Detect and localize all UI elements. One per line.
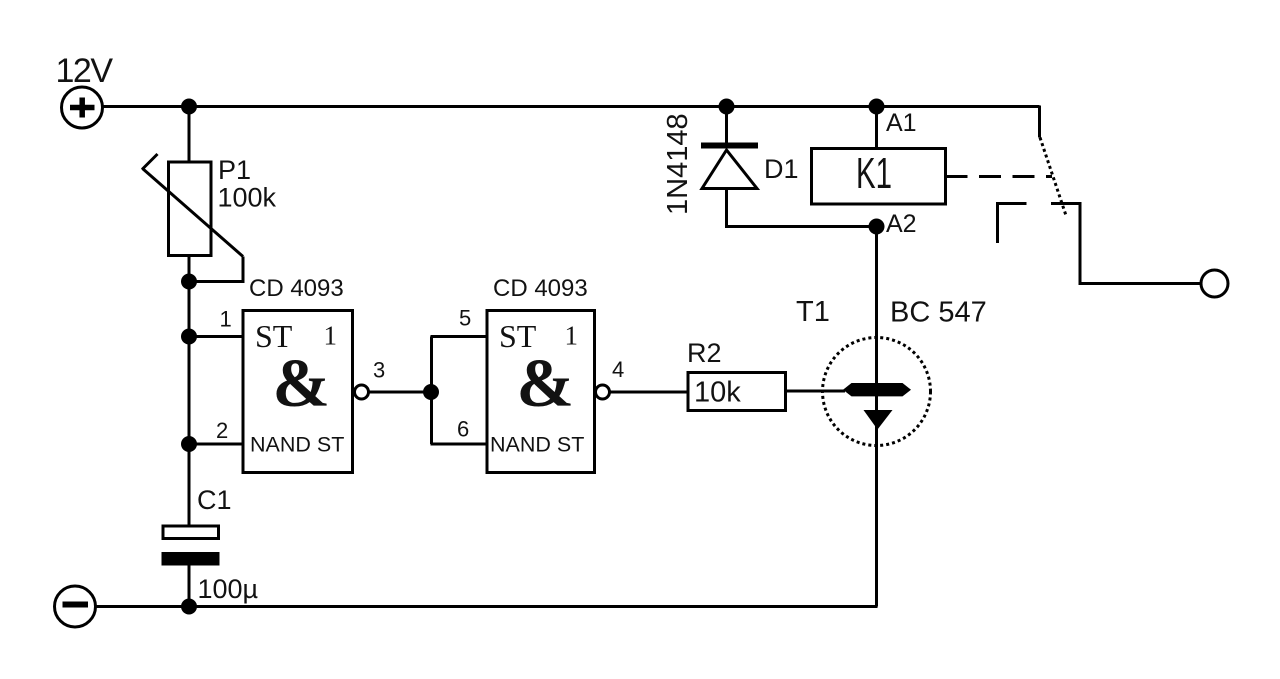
wire gate2 pin6 stub	[431, 443, 488, 446]
node P1 bottom junction	[181, 274, 197, 290]
switch fixed contact hook	[998, 204, 1027, 244]
svg-text:&: &	[273, 345, 330, 421]
node junction top-left	[181, 99, 197, 115]
wire collector-emitter vertical through T1	[875, 227, 878, 607]
svg-text:4: 4	[612, 357, 624, 382]
gate2 output inversion bubble	[596, 385, 610, 399]
wire gate1 pin2 stub	[189, 443, 243, 446]
svg-text:P1: P1	[218, 155, 251, 185]
terminal 12V plus	[62, 87, 103, 128]
node gate1 pin1 junction	[181, 329, 197, 345]
svg-text:&: &	[517, 345, 574, 421]
svg-text:1N4148: 1N4148	[662, 113, 694, 215]
svg-text:5: 5	[459, 306, 471, 331]
transistor T1 emitter arrow	[864, 410, 893, 430]
wire gate2 output to R2	[610, 391, 689, 394]
svg-text:R2: R2	[687, 338, 722, 368]
relay K1 coil box	[812, 149, 946, 205]
svg-text:BC 547: BC 547	[890, 297, 987, 329]
svg-text:CD 4093: CD 4093	[249, 275, 344, 302]
wire switch pole to output	[1051, 204, 1201, 284]
wire gate1 output to gate2 inputs	[369, 391, 432, 394]
wire left bus P1 to pin1	[188, 282, 191, 337]
wire P1 bottom lead	[188, 256, 191, 282]
wire top rail right drop	[1038, 106, 1041, 138]
wire gate1 pin1 stub	[189, 335, 243, 338]
svg-text:100µ: 100µ	[198, 574, 259, 604]
node A2 junction	[869, 219, 885, 235]
svg-text:D1: D1	[764, 154, 799, 184]
wire P1 wiper to bottom node	[189, 257, 243, 282]
potentiometer P1 body	[169, 162, 212, 256]
switch blade dotted	[1040, 138, 1067, 218]
node gate1 pin2 junction	[181, 436, 197, 452]
capacitor C1 bottom plate	[162, 552, 220, 566]
wire left bus pin1 to pin2	[188, 337, 191, 445]
op-amp gate U1B CD4093 box	[487, 311, 595, 473]
wire left bus pin2 to C1	[188, 444, 191, 527]
gate1 output inversion bubble	[355, 385, 369, 399]
node gate2 input junction	[423, 384, 439, 400]
svg-text:1: 1	[220, 307, 232, 332]
wire gate2 input bracket vertical	[430, 337, 433, 445]
svg-text:K1: K1	[856, 149, 892, 198]
svg-text:2: 2	[216, 418, 228, 443]
wire R2 to transistor base	[786, 390, 846, 393]
wire top supply rail	[102, 105, 1040, 108]
wire C1 bottom lead	[188, 566, 191, 607]
node bottom rail junction	[181, 599, 197, 615]
svg-text:A2: A2	[886, 210, 917, 238]
node diode top junction	[719, 99, 735, 115]
wire gate2 pin5 stub	[431, 335, 488, 338]
svg-text:10k: 10k	[694, 377, 741, 409]
wire K1 coil top lead A1	[875, 107, 878, 149]
transistor T1 envelope circle	[823, 338, 931, 446]
svg-text:6: 6	[457, 417, 469, 442]
terminal minus	[55, 586, 96, 627]
resistor R2 body	[688, 373, 786, 411]
node K1 top junction	[869, 99, 885, 115]
potentiometer P1 wiper arrow	[142, 154, 243, 257]
svg-text:T1: T1	[796, 296, 830, 328]
wire diode bottom lead	[727, 189, 877, 227]
transistor T1 base bar	[843, 383, 911, 396]
svg-text:NAND ST: NAND ST	[490, 433, 584, 457]
diode D1 cathode bar	[701, 143, 758, 149]
op-amp gate U1A CD4093 box	[243, 311, 353, 473]
svg-text:3: 3	[373, 358, 385, 383]
svg-text:A1: A1	[886, 109, 917, 137]
diode D1 triangle	[702, 150, 757, 189]
relay actuation dashed link	[946, 175, 1053, 178]
wire diode top lead	[725, 107, 728, 144]
svg-text:C1: C1	[197, 485, 232, 515]
wire from top rail down to P1	[188, 107, 191, 164]
svg-text:12V: 12V	[56, 52, 114, 90]
svg-text:NAND ST: NAND ST	[250, 433, 344, 457]
wire bottom ground rail	[96, 605, 878, 608]
svg-text:100k: 100k	[218, 183, 277, 213]
capacitor C1 top plate	[163, 526, 219, 539]
terminal output circle	[1201, 270, 1228, 297]
svg-text:CD 4093: CD 4093	[493, 275, 588, 302]
